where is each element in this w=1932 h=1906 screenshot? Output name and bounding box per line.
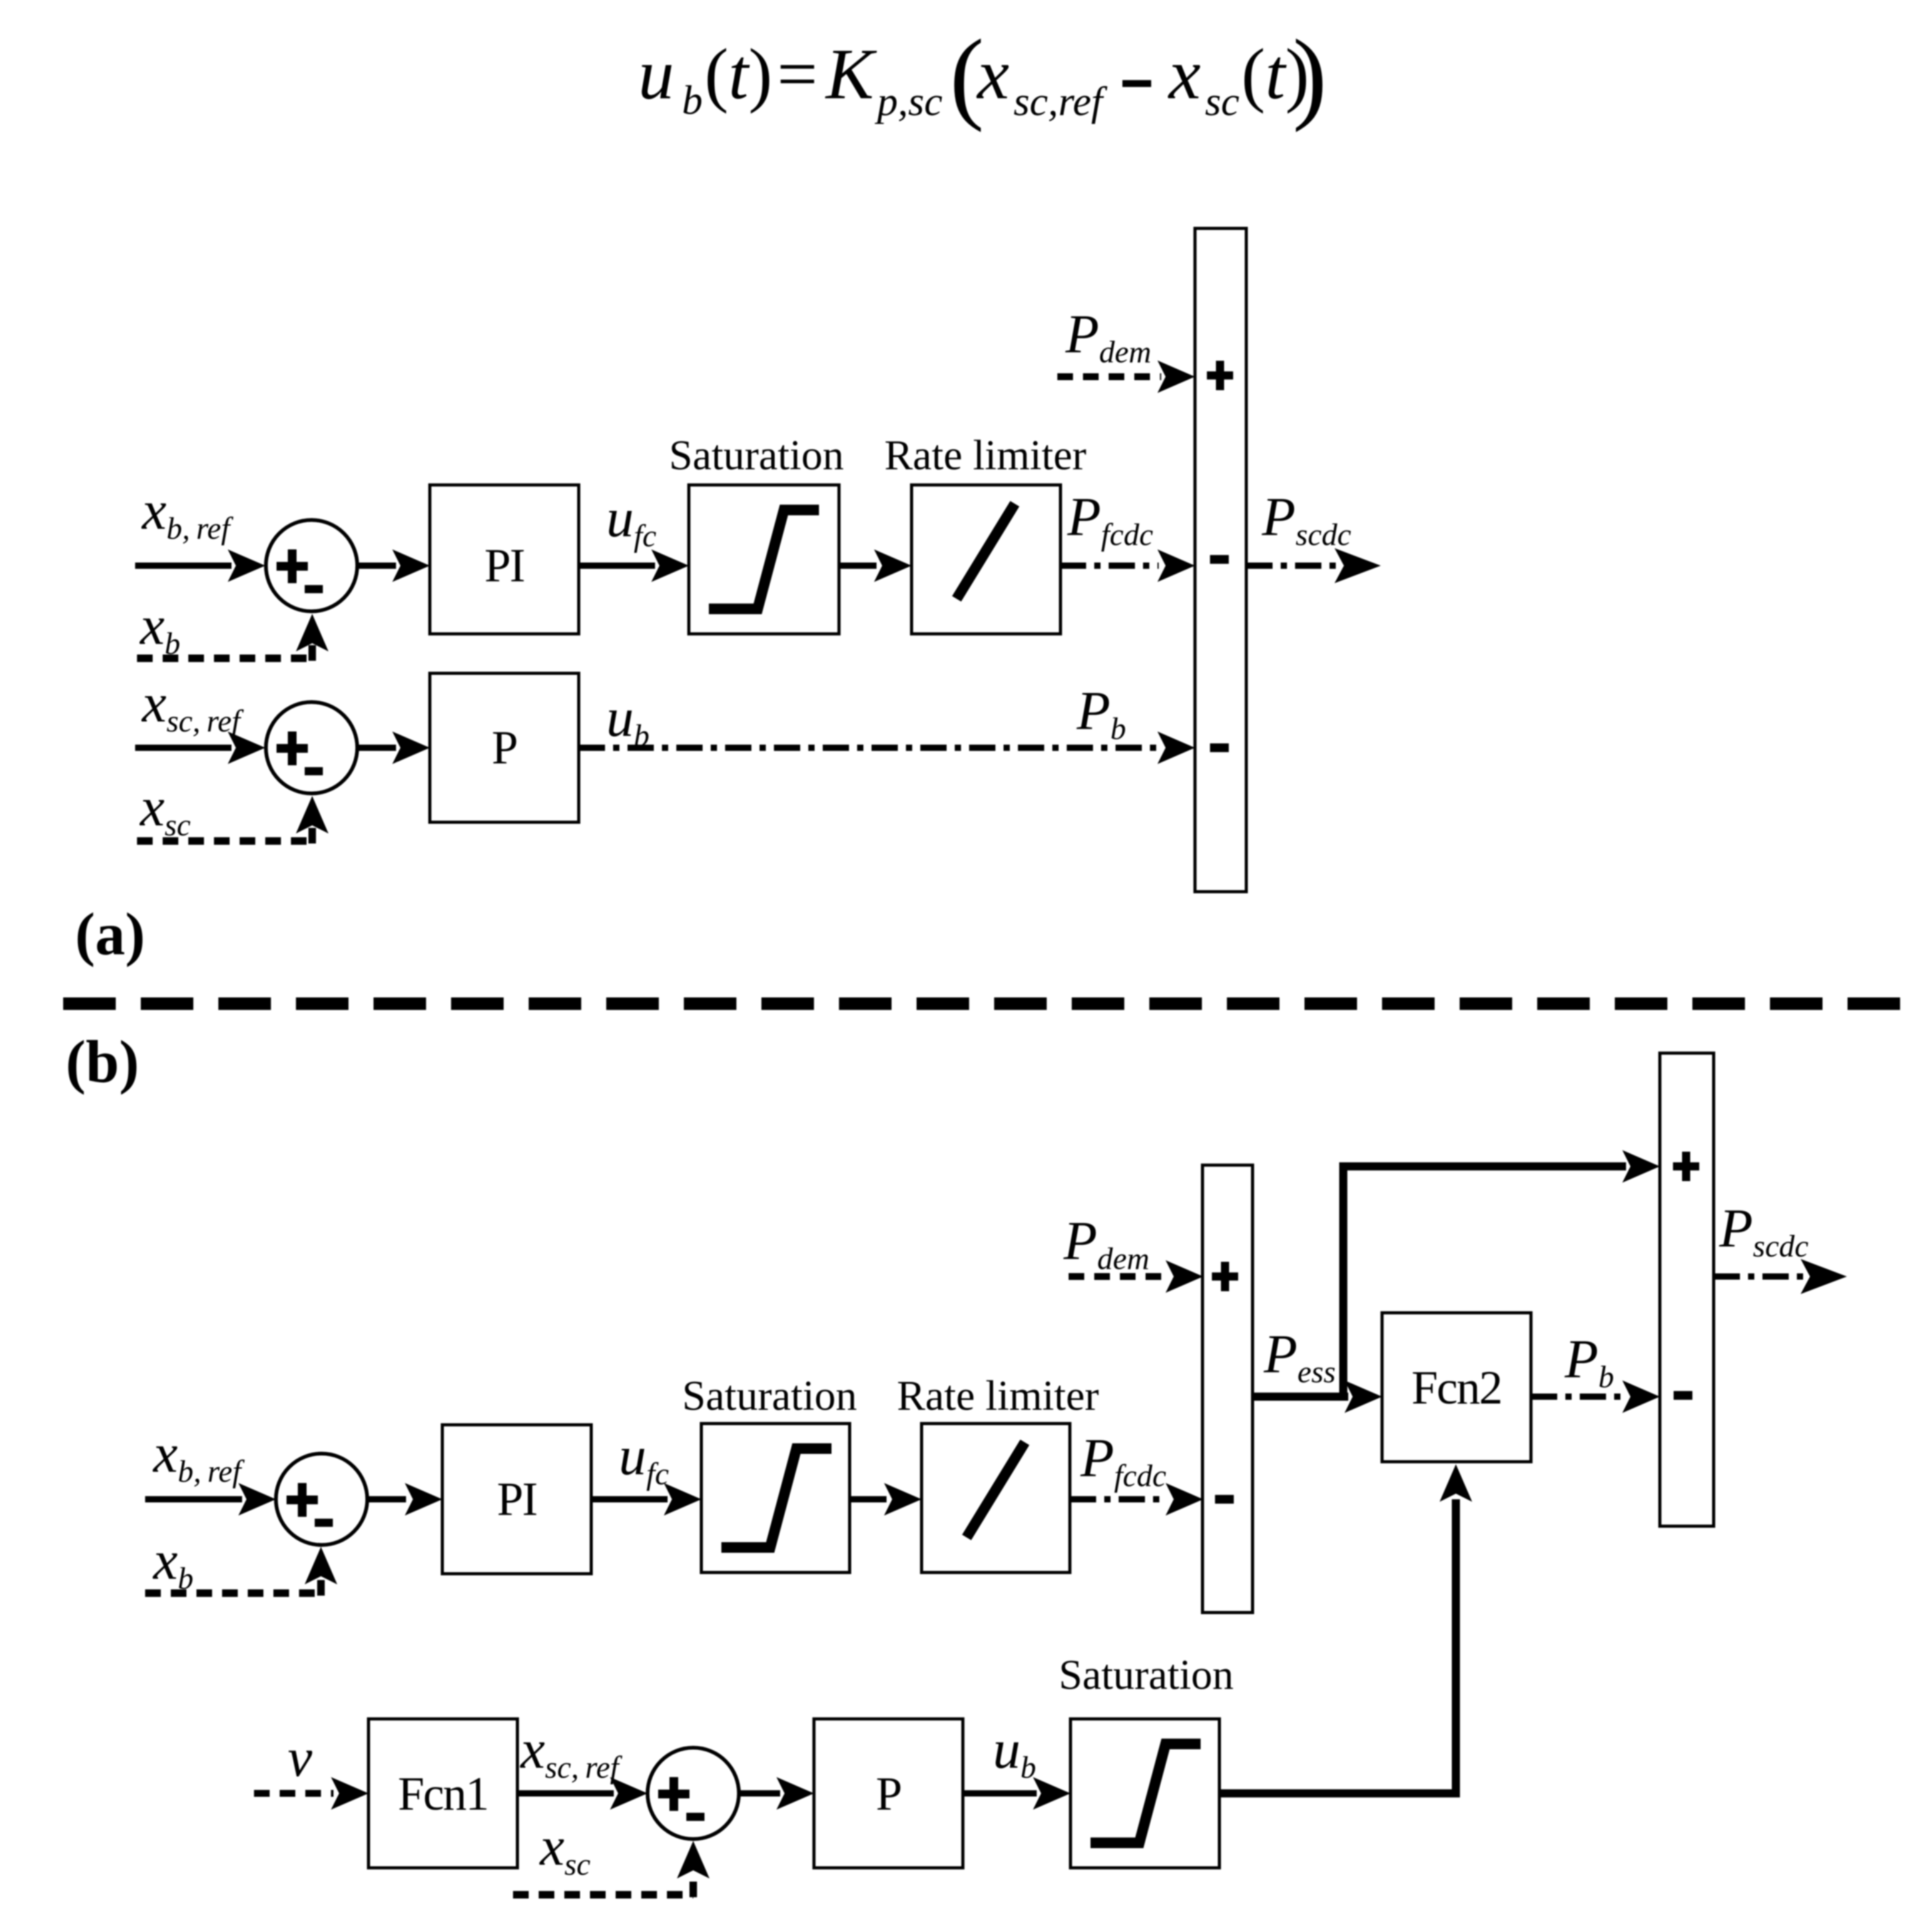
svg-text:Saturation: Saturation — [669, 431, 844, 479]
svg-text:Saturation: Saturation — [1059, 1651, 1234, 1698]
svg-text:PI: PI — [497, 1473, 537, 1526]
svg-text:x: x — [1167, 34, 1201, 114]
svg-text:Rate limiter: Rate limiter — [897, 1372, 1099, 1419]
svg-text:Saturation: Saturation — [682, 1372, 857, 1419]
svg-text:PI: PI — [484, 539, 524, 592]
svg-text:K: K — [825, 34, 877, 114]
svg-text:=: = — [777, 34, 818, 114]
svg-text:sc,ref: sc,ref — [1014, 79, 1107, 125]
svg-text:P: P — [492, 721, 517, 774]
svg-text:Fcn2: Fcn2 — [1411, 1362, 1502, 1414]
svg-text:p,sc: p,sc — [875, 79, 942, 125]
svg-text:P: P — [876, 1768, 901, 1820]
svg-text:(b): (b) — [66, 1028, 139, 1095]
svg-text:sc: sc — [1205, 79, 1239, 125]
svg-text:u: u — [638, 34, 674, 114]
svg-text:v: v — [288, 1728, 313, 1788]
svg-text:Fcn1: Fcn1 — [398, 1768, 488, 1820]
svg-text:Rate limiter: Rate limiter — [885, 431, 1087, 479]
svg-text:(t): (t) — [704, 34, 773, 114]
svg-text:x: x — [976, 34, 1009, 114]
svg-text:(a): (a) — [75, 900, 145, 967]
svg-text:): ) — [1293, 18, 1327, 133]
svg-text:b: b — [682, 78, 703, 123]
